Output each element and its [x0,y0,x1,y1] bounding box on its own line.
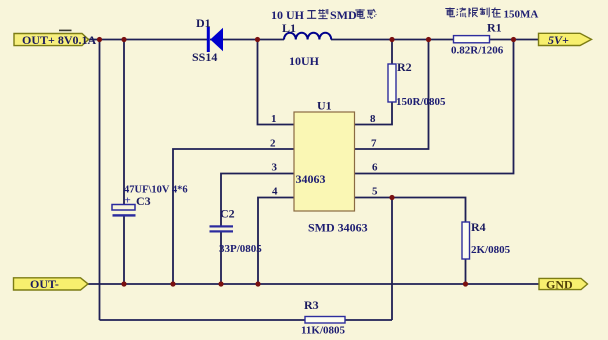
svg-text:6: 6 [372,162,378,174]
wire pin 3 of U1 to capacitor C2 top [221,174,294,226]
wire pin 7 of U1 up to top rail [355,40,429,150]
U1 pin number 2 [270,138,276,150]
junction node on top rail at x257.5 (L1 left) [255,37,260,42]
svg-text:OUT+ 8V0.1A: OUT+ 8V0.1A [22,33,97,47]
U1 pin number 4 [272,186,278,198]
U1 pin number 1 [271,113,277,125]
wire pin 8 of U1 to resistor R2 bottom [355,103,393,125]
capacitor C3 designator label [136,194,151,208]
U1 designator label [317,99,332,113]
inductor L1 value label 10UH [289,54,320,68]
wire pin 1 of U1 to top rail [258,40,295,125]
svg-text:11K/0805: 11K/0805 [301,325,346,337]
wire pin 2 of U1 to OUT- rail [173,149,294,284]
svg-text:33P/0805: 33P/0805 [219,243,262,255]
resistor R2 value label 150R/0805 [396,96,446,108]
capacitor C2 [210,225,234,232]
op-amp U1 (MC34063 converter IC body) [294,112,355,211]
svg-text:10 UH: 10 UH [271,8,305,22]
svg-text:R2: R2 [397,60,412,74]
svg-text:L1: L1 [282,21,296,35]
wire top rail from OUT+ flag to diode D1 [88,39,208,41]
svg-text:SS14: SS14 [192,50,217,64]
junction node on GND rail at x465.5 (R4 bottom) [463,281,468,286]
wire node x392 right to resistor R4 top [392,198,466,223]
note text 10 UH 工型SMD電感 [271,8,376,22]
svg-text:3: 3 [272,162,278,174]
capacitor C3 value label 47UF\10V 4*6 [124,185,188,196]
resistor R2 designator label [397,60,412,74]
diode D1 value label SS14 [192,50,217,64]
wire bottom OUT- / GND rail [87,283,540,285]
capacitor C2 designator label [220,207,235,221]
resistor R3 designator label [304,298,319,312]
wire pin 6 of U1 up to top rail [355,40,514,174]
svg-text:SMD 34063: SMD 34063 [308,221,368,235]
svg-text:SMD: SMD [330,8,357,22]
svg-text:7: 7 [371,138,377,150]
svg-text:D1: D1 [196,16,211,30]
port flag GND [539,277,588,291]
svg-text:1: 1 [271,113,277,125]
junction node at pin 5 of U1 [389,195,394,200]
svg-text:47UF\10V 4*6: 47UF\10V 4*6 [124,185,188,196]
svg-text:34063: 34063 [296,172,326,186]
capacitor C3 plus sign [125,195,131,207]
svg-text:OUT-: OUT- [30,277,59,291]
wire vertical from OUT+ rail down to capacitor C3 top [123,40,125,206]
svg-text:C2: C2 [220,207,235,221]
U1 pin number 5 [372,186,378,198]
svg-text:R1: R1 [487,21,502,35]
capacitor C3 (polarized) [112,205,136,217]
port flag OUT+ 8V0.1A [14,33,97,47]
svg-text:4: 4 [272,186,278,198]
diode D1 designator label [196,16,211,30]
svg-text:2K/0805: 2K/0805 [471,244,511,256]
svg-text:150MA: 150MA [504,9,539,21]
wire resistor R2 top to top rail [391,40,393,65]
resistor R1 designator label [487,21,502,35]
U1 part name label 34063 inside body [296,172,326,186]
svg-text:0.82R/1206: 0.82R/1206 [451,45,504,57]
svg-text:150R/0805: 150R/0805 [396,96,446,108]
resistor R3 value label 11K/0805 [301,325,346,337]
svg-text:5V+: 5V+ [548,33,569,47]
wire top rail from inductor L1 to resistor R1 [331,39,454,41]
U1 pin number 3 [272,162,278,174]
junction node on top rail at x428.5 (pin7) [426,37,431,42]
note text 電流限制在150MA [445,8,538,21]
junction node on top rail at x513.5 (R1 right) [511,37,516,42]
resistor R2 [388,64,396,102]
wire top rail from diode D1 to inductor L1 [210,39,284,41]
wire top rail from resistor R1 to 5V+ flag [490,39,540,41]
wire R3 rail left segment [100,319,306,321]
junction node on OUT- rail at x124 (C3) [121,281,126,286]
resistor R3 [305,317,345,324]
port flag 5V+ [539,33,592,47]
resistor R4 value label 2K/0805 [471,244,511,256]
svg-text:2: 2 [270,138,276,150]
port flag OUT- [14,277,89,291]
resistor R1 value label 0.82R/1206 [451,45,504,57]
svg-text:8: 8 [370,113,376,125]
U1 pin number 7 [371,138,377,150]
junction node on top rail at x124 [121,37,126,42]
junction node on top rail at x99.5 [97,37,102,42]
inductor L1 [284,33,331,40]
svg-text:R4: R4 [471,220,486,234]
junction node on OUT- rail at x173 (pin2) [170,281,175,286]
wire pin 5 of U1 to node at x392 [355,197,393,199]
U1 comment label SMD 34063 [308,221,368,235]
wire node x392 down to R3 rail [391,198,393,321]
svg-text:+: + [125,195,131,207]
diode D1 [207,27,223,53]
resistor R1 [454,36,490,43]
resistor R4 [462,222,470,259]
svg-text:U1: U1 [317,99,332,113]
wire R3 rail right segment [345,319,392,321]
wire capacitor C2 bottom to OUT- rail [220,232,222,284]
inductor L1 designator label [282,21,296,35]
U1 pin number 6 [372,162,378,174]
svg-text:R3: R3 [304,298,319,312]
resistor R4 designator label [471,220,486,234]
wire resistor R4 bottom to GND rail [465,259,467,284]
junction node on OUT- rail at x258 (pin4) [255,281,260,286]
wire vertical from capacitor C3 bottom to OUT- rail [123,216,125,284]
overline mark above OUT+ flag [59,30,72,32]
capacitor C2 value label 33P/0805 [219,243,262,255]
svg-text:10UH: 10UH [289,54,320,68]
svg-text:C3: C3 [136,194,151,208]
U1 pin number 8 [370,113,376,125]
wire vertical from OUT+ rail down to R3 rail [99,40,101,321]
svg-text:5: 5 [372,186,378,198]
junction node on top rail at x392 (R2 top) [389,37,394,42]
svg-text:GND: GND [546,277,573,291]
wire pin 4 of U1 to OUT- rail [258,198,294,285]
junction node on OUT- rail at x221 (C2) [218,281,223,286]
